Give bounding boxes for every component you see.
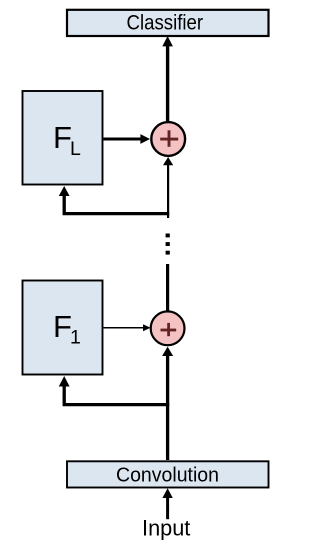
box F1 [23,281,103,375]
box Classifier [67,10,269,36]
wire trunk below plus-L with arrowhead into plus-L [163,157,173,218]
wire skip branch to F1 [59,376,169,405]
arrow Input to Convolution [162,488,172,519]
svg-text:Convolution: Convolution [116,463,219,486]
plus adder L [151,122,185,156]
svg-text:L: L [70,138,81,160]
box FL [23,91,103,185]
wire dots to plus-1 top [166,264,169,312]
wire trunk Convolution to plus-1 with arrowhead [162,347,173,460]
svg-text:Classifier: Classifier [127,11,204,35]
arrow F1 to plus-1 (thin) [104,324,151,331]
wire plus-L to Classifier [162,36,173,121]
wire skip branch to FL [59,186,169,214]
label Input [142,515,191,540]
svg-text:1: 1 [70,327,81,349]
plus adder 1 [151,311,185,345]
arrow FL to plus-L [104,134,151,144]
svg-text:Input: Input [142,515,191,540]
box Convolution [67,461,269,487]
dots ellipsis [166,234,170,255]
